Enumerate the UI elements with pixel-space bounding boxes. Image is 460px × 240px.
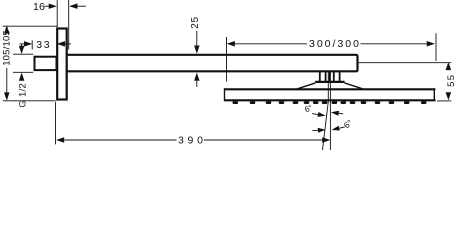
- dim 390 extension line: [55, 102, 57, 144]
- svg-text:390: 390: [178, 134, 207, 146]
- spray axis vertical 0deg: [329, 71, 331, 150]
- ball joint collar nut: [320, 71, 340, 81]
- dim 33: [20, 43, 25, 45]
- dim 105/105: [4, 25, 10, 33]
- joint flange: [315, 81, 344, 83]
- dim 300/300 extension lines: [226, 37, 228, 82]
- dim 16 extension lines: [56, 0, 58, 27]
- dim 33 extension line: [31, 40, 33, 49]
- svg-text:16: 16: [33, 1, 45, 13]
- head top edge: [224, 88, 435, 90]
- svg-text:25: 25: [190, 16, 201, 29]
- dim 390: [56, 137, 64, 143]
- dim 55 extension lines: [358, 62, 452, 64]
- angle 6deg upper right arrow: [331, 111, 339, 116]
- svg-text:55: 55: [446, 74, 457, 87]
- svg-text:33: 33: [36, 39, 51, 51]
- supply stub G1/2: [35, 57, 57, 70]
- spray axis tilted 6deg: [323, 71, 329, 150]
- dim 300/300: [227, 41, 235, 47]
- svg-text:G 1/2: G 1/2: [17, 83, 28, 108]
- angle 6deg lower right arrow: [332, 126, 340, 131]
- angle 6deg upper left arrow: [312, 114, 318, 115]
- joint cone: [297, 83, 362, 89]
- svg-text:105/105: 105/105: [2, 30, 13, 66]
- wall plate: [57, 29, 66, 100]
- dim 16: [44, 5, 49, 7]
- dim 55: [446, 62, 452, 70]
- dim 25: [196, 31, 198, 46]
- shower arm: [66, 55, 358, 72]
- dim 105/105 extension lines: [3, 25, 58, 27]
- svg-text:300/300: 300/300: [309, 38, 361, 50]
- angle 6deg lower left arrow: [312, 129, 318, 131]
- head left edge: [224, 88, 226, 100]
- dim G 1/2 extension lines: [13, 53, 33, 55]
- dim G 1/2: [21, 44, 23, 46]
- head right edge: [433, 88, 435, 100]
- nozzle row: [233, 101, 427, 104]
- head spray face: [224, 99, 436, 101]
